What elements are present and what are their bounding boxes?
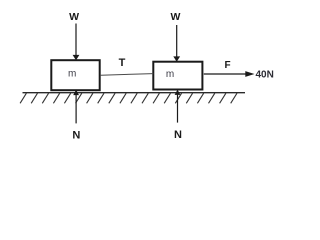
svg-text:m: m (166, 69, 174, 80)
svg-text:N: N (72, 129, 80, 141)
svg-text:F: F (224, 60, 230, 71)
normal arrow N (left) (75, 95, 77, 124)
svg-text:40N: 40N (256, 70, 274, 81)
applied force arrow F (204, 73, 247, 75)
svg-text:W: W (171, 11, 181, 23)
block m (right) (153, 62, 202, 90)
svg-text:W: W (69, 11, 79, 23)
normal arrow N (right) (177, 94, 179, 122)
ground hatching (20, 93, 237, 103)
weight arrow W (left) (75, 24, 77, 56)
svg-text:T: T (119, 57, 126, 69)
ground line (23, 92, 246, 94)
svg-text:N: N (174, 129, 182, 141)
block m (left) (51, 60, 99, 90)
svg-text:m: m (68, 69, 76, 80)
string between blocks (tension T) (101, 74, 154, 76)
weight arrow W (right) (176, 25, 178, 57)
